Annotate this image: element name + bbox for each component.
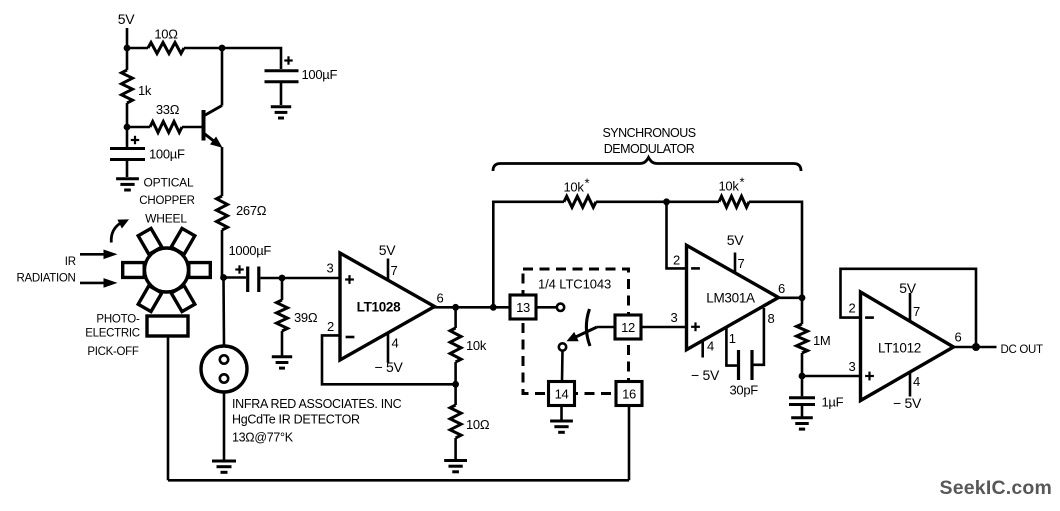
node J11 bbox=[799, 373, 806, 380]
svg-text:− 5V: − 5V bbox=[893, 395, 922, 411]
label PHOTO-ELECTRIC PICK-OFF bbox=[85, 314, 140, 359]
pin 1 lead bbox=[726, 327, 737, 366]
svg-text:10k: 10k bbox=[564, 180, 585, 195]
IR detector (photoconductor) bbox=[201, 346, 247, 392]
svg-text:14: 14 bbox=[555, 387, 569, 402]
rotation arrow bbox=[111, 219, 129, 242]
pin 7 stub bbox=[734, 253, 737, 274]
wire base node to 33ohm bbox=[127, 126, 150, 129]
svg-text:6: 6 bbox=[778, 281, 785, 296]
wire node to detector bbox=[222, 278, 225, 347]
feedback wire U1 pin2 bbox=[322, 335, 456, 384]
wire pin 3 input bbox=[282, 277, 340, 280]
node J1 (5V rail split) bbox=[124, 45, 131, 52]
label INFRA RED ASSOCIATES bbox=[232, 397, 402, 445]
svg-text:RADIATION: RADIATION bbox=[16, 273, 75, 285]
svg-text:267Ω: 267Ω bbox=[236, 203, 267, 218]
wire J11 to U3 pin3 bbox=[802, 375, 861, 378]
resistor 267ohm bbox=[217, 196, 228, 230]
label OPTICAL CHOPPER WHEEL bbox=[139, 176, 194, 226]
pin 7 stub bbox=[387, 259, 390, 281]
svg-text:PHOTO-: PHOTO- bbox=[96, 314, 140, 326]
resistor 10ohm (to gnd) bbox=[454, 384, 457, 405]
svg-text:10Ω: 10Ω bbox=[154, 27, 178, 42]
plus sign U3 bbox=[865, 372, 874, 381]
svg-text:2: 2 bbox=[327, 319, 334, 334]
wire bottom rail bbox=[168, 479, 629, 482]
wire J9 down to U2 pin2 bbox=[667, 202, 687, 269]
op-amp U2 LM301A bbox=[687, 245, 779, 349]
svg-text:13: 13 bbox=[516, 300, 530, 315]
svg-text:1/4 LTC1043: 1/4 LTC1043 bbox=[538, 277, 611, 292]
wire 267ohm down to input node bbox=[222, 230, 224, 278]
photo-electric pick-off bbox=[147, 316, 188, 336]
svg-text:100µF: 100µF bbox=[149, 147, 185, 162]
svg-text:CHOPPER: CHOPPER bbox=[139, 195, 194, 207]
svg-text:4: 4 bbox=[392, 336, 399, 351]
svg-text:5V: 5V bbox=[379, 242, 396, 258]
ground under box14 bbox=[550, 421, 573, 432]
svg-text:30pF: 30pF bbox=[730, 383, 759, 398]
resistor 1M bbox=[801, 298, 804, 324]
resistor 10k* no.2 bbox=[719, 196, 749, 207]
transistor Q1 (NPN) bbox=[182, 106, 223, 148]
resistor 10k feedback bbox=[454, 307, 457, 328]
svg-text:*: * bbox=[740, 175, 745, 190]
wire rail right end down bbox=[749, 202, 802, 298]
svg-text:16: 16 bbox=[622, 387, 636, 402]
wire 10ohm to collector node bbox=[184, 47, 222, 50]
svg-text:1000µF: 1000µF bbox=[229, 243, 272, 258]
IR arrow 2 bbox=[80, 278, 118, 288]
wire U3 output bbox=[952, 346, 997, 349]
svg-text:5V: 5V bbox=[727, 232, 744, 248]
wire 10ohm to ground bbox=[454, 438, 457, 459]
svg-text:INFRA RED ASSOCIATES. INC: INFRA RED ASSOCIATES. INC bbox=[232, 397, 402, 411]
minus sign U1 bbox=[346, 336, 355, 339]
svg-text:10k: 10k bbox=[466, 338, 487, 353]
wire contact B to box14 bbox=[561, 351, 564, 382]
pin 7 stub bbox=[909, 293, 912, 322]
wire box16 to bottom rail bbox=[628, 406, 631, 481]
svg-text:DC OUT: DC OUT bbox=[1001, 344, 1044, 356]
svg-text:HgCdTe IR DETECTOR: HgCdTe IR DETECTOR bbox=[232, 413, 360, 427]
svg-text:LM301A: LM301A bbox=[706, 291, 755, 306]
svg-text:LT1028: LT1028 bbox=[357, 300, 402, 315]
pin box 13 bbox=[510, 295, 536, 319]
svg-text:39Ω: 39Ω bbox=[294, 310, 318, 325]
node J9 bbox=[663, 198, 670, 205]
node J7 bbox=[490, 304, 497, 311]
resistor 33ohm bbox=[150, 122, 182, 133]
svg-text:3: 3 bbox=[849, 359, 856, 374]
op-amp U3 LT1012 bbox=[861, 292, 954, 401]
svg-text:100µF: 100µF bbox=[302, 67, 338, 82]
wire 5V rail segment to 10ohm bbox=[127, 47, 148, 50]
minus sign U3 bbox=[865, 316, 874, 319]
svg-text:IR: IR bbox=[65, 256, 76, 268]
plus sign U2 bbox=[691, 322, 700, 331]
svg-text:3: 3 bbox=[671, 310, 678, 325]
svg-text:2: 2 bbox=[849, 301, 856, 316]
wire U2 output bbox=[777, 296, 802, 299]
svg-text:6: 6 bbox=[955, 330, 962, 345]
ground under 1uF bbox=[791, 418, 813, 429]
switch contact B (open circle) bbox=[559, 343, 566, 350]
wire pick-off to bottom rail bbox=[167, 336, 170, 480]
switch travel arc bbox=[586, 309, 590, 346]
svg-text:4: 4 bbox=[913, 374, 920, 389]
label SYNCHRONOUS DEMODULATOR bbox=[602, 126, 695, 156]
ground under 39ohm bbox=[272, 357, 292, 368]
resistor 10k* no.1 bbox=[564, 196, 596, 207]
svg-text:LT1012: LT1012 bbox=[878, 340, 921, 355]
svg-text:6: 6 bbox=[437, 291, 444, 306]
svg-text:WHEEL: WHEEL bbox=[145, 212, 187, 226]
wire 39ohm to ground bbox=[281, 331, 284, 356]
ground under detector bbox=[212, 461, 236, 472]
feedback wire U3 bbox=[841, 269, 977, 347]
svg-text:10Ω: 10Ω bbox=[466, 417, 490, 432]
svg-text:OPTICAL: OPTICAL bbox=[144, 176, 194, 190]
minus sign U2 bbox=[691, 267, 700, 270]
svg-text:3: 3 bbox=[327, 261, 334, 276]
svg-text:2: 2 bbox=[673, 253, 680, 268]
resistor 1k bbox=[126, 48, 129, 70]
node J3 (base node) bbox=[124, 124, 131, 131]
svg-text:PICK-OFF: PICK-OFF bbox=[87, 346, 139, 358]
pin 4 stub bbox=[701, 340, 704, 357]
resistor 39ohm bbox=[281, 278, 284, 300]
pin 8 lead bbox=[754, 308, 764, 365]
svg-text:7: 7 bbox=[391, 263, 398, 278]
wire collector up bbox=[221, 48, 224, 106]
node J6 bbox=[452, 304, 459, 311]
pin box 12 bbox=[615, 315, 641, 339]
svg-text:*: * bbox=[585, 176, 590, 191]
capacitor 30pF bbox=[739, 350, 753, 380]
wire collector node to C1 bbox=[222, 48, 281, 69]
node J8 bbox=[454, 362, 457, 384]
svg-text:10k: 10k bbox=[719, 179, 740, 194]
pin box 14 bbox=[549, 382, 575, 406]
pin 4 stub bbox=[387, 333, 390, 363]
LTC1043 dashed outline bbox=[523, 269, 629, 394]
svg-text:− 5V: − 5V bbox=[375, 359, 404, 375]
brace bbox=[493, 158, 801, 172]
svg-text:ELECTRIC: ELECTRIC bbox=[85, 328, 139, 340]
svg-text:33Ω: 33Ω bbox=[156, 102, 180, 117]
switch wiper arm bbox=[567, 327, 598, 341]
wire between 10k* bbox=[596, 201, 719, 204]
wire box13 to contact bbox=[536, 306, 557, 309]
pin 4 stub bbox=[909, 372, 912, 397]
ground under C2 bbox=[116, 179, 139, 190]
wire box14 to ground bbox=[560, 406, 563, 421]
wire up to demod rail bbox=[493, 202, 564, 307]
IR arrow 1 bbox=[80, 250, 118, 260]
pin box 16 bbox=[616, 382, 642, 406]
ground under 10ohm bbox=[444, 461, 467, 472]
svg-text:1k: 1k bbox=[138, 83, 152, 98]
svg-text:− 5V: − 5V bbox=[691, 367, 720, 383]
node J5 (op-amp + input) bbox=[279, 275, 286, 282]
svg-text:5V: 5V bbox=[899, 280, 916, 296]
svg-text:1µF: 1µF bbox=[822, 395, 844, 410]
capacitor C3 1000uF (polarized) bbox=[224, 265, 283, 292]
node J4 input node bbox=[220, 274, 227, 281]
ground under C1 bbox=[271, 107, 291, 118]
wire box12 to U2 pin3 bbox=[641, 326, 687, 329]
resistor 10ohm bbox=[148, 43, 184, 54]
svg-text:DEMODULATOR: DEMODULATOR bbox=[604, 142, 695, 156]
wire detector to ground bbox=[223, 392, 226, 460]
svg-text:1: 1 bbox=[729, 331, 736, 346]
svg-text:12: 12 bbox=[621, 320, 635, 335]
wire emitter down to 267ohm bbox=[221, 147, 224, 196]
plus sign U1 bbox=[345, 275, 354, 284]
node J2 (collector node) bbox=[219, 45, 226, 52]
wire 1k to base node bbox=[126, 103, 129, 127]
capacitor C1 100uF (polarized) bbox=[265, 56, 299, 105]
wire 5V down to rail bbox=[126, 28, 129, 48]
svg-text:SYNCHRONOUS: SYNCHRONOUS bbox=[602, 126, 695, 140]
node J12 bbox=[972, 343, 980, 351]
capacitor C2 100uF (polarized) bbox=[110, 127, 145, 177]
svg-text:5V: 5V bbox=[118, 11, 135, 27]
label IR RADIATION bbox=[16, 256, 75, 285]
svg-text:4: 4 bbox=[707, 339, 714, 354]
svg-text:1M: 1M bbox=[813, 333, 830, 348]
svg-text:SeekIC.com: SeekIC.com bbox=[940, 477, 1053, 499]
svg-text:7: 7 bbox=[913, 304, 920, 319]
switch contact A (open circle) bbox=[557, 304, 564, 311]
wire box12 to wiper bbox=[597, 326, 615, 329]
optical chopper wheel bbox=[123, 228, 211, 311]
svg-text:13Ω@77°K: 13Ω@77°K bbox=[232, 431, 294, 445]
svg-text:7: 7 bbox=[738, 256, 745, 271]
wire U1 output bbox=[433, 306, 510, 309]
capacitor 1uF bbox=[789, 376, 815, 417]
svg-text:8: 8 bbox=[768, 311, 775, 326]
node J10 bbox=[799, 294, 806, 301]
wire 1M to node bbox=[801, 353, 804, 376]
op-amp U1 LT1028 bbox=[340, 253, 435, 360]
